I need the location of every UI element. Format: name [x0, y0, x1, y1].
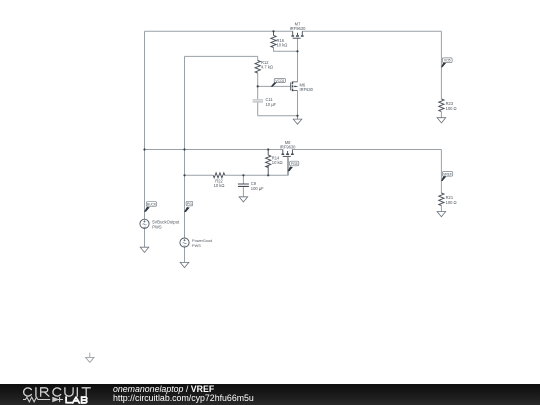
junction second vertical / lower rail [183, 148, 185, 150]
resistor R21 [439, 193, 444, 206]
LAB bold letters [66, 397, 87, 403]
junction M6 source / C11 / ground [296, 115, 298, 117]
ground under M6 [293, 116, 302, 125]
svg-text:10 kΩ: 10 kΩ [214, 183, 225, 188]
svg-text:PowerGood: PowerGood [192, 239, 212, 243]
voltage source PowerGood [180, 238, 189, 247]
capacitor C11 [253, 99, 263, 102]
transistor M8 (PMOS, gate down) [282, 150, 294, 157]
wire R16 bottom to gate node [274, 48, 298, 52]
wire second vertical [184, 56, 186, 238]
resistor R23 [439, 99, 444, 112]
svg-text:PWS: PWS [192, 244, 201, 248]
wire powergood source to ground [184, 247, 186, 263]
svg-text:IRF630: IRF630 [300, 87, 314, 92]
junction M7 gate / R16 / M6 drain [296, 50, 298, 52]
flag VREF [441, 172, 453, 181]
svg-text:100 Ω: 100 Ω [446, 200, 457, 205]
flag PG5 [288, 161, 299, 171]
svg-text:VO5: VO5 [444, 59, 451, 63]
capacitor C9 [238, 184, 249, 186]
circuitlab logo [0, 384, 110, 405]
wire M6 source to bottom [297, 91, 299, 116]
svg-text:PG: PG [187, 202, 192, 206]
wire lower rail [145, 149, 442, 151]
flag BUCK [144, 202, 157, 212]
footer bar [0, 384, 540, 405]
wire buck source to ground [144, 228, 146, 247]
wire bottom of C11 to M6 source [258, 115, 298, 117]
ground lower right [437, 212, 446, 217]
wire right vertical top [440, 31, 442, 99]
junction second vertical / R22 row (node PG) [183, 174, 185, 176]
svg-text:4.7 kΩ: 4.7 kΩ [261, 65, 273, 70]
voltage source 5VBuckOutput [140, 219, 149, 228]
svg-text:10 kΩ: 10 kΩ [277, 43, 288, 48]
resistor R14 [266, 150, 271, 176]
transistor M7 (PMOS, gate down) [291, 31, 303, 38]
svg-text:IRF9630: IRF9630 [280, 144, 296, 149]
transistor M6 (NMOS, gate left) [291, 82, 298, 92]
flag PG [184, 201, 193, 212]
wire R12/C11 column [257, 56, 259, 115]
flag VCC6 [271, 79, 286, 87]
ground under C9 [239, 197, 248, 202]
resistor R22 (horizontal) [213, 173, 225, 178]
wire left vertical (buck) [144, 31, 146, 219]
svg-text:100 µF: 100 µF [251, 186, 264, 191]
CIRCUIT outline letters [24, 388, 91, 396]
svg-text:PG5: PG5 [291, 162, 298, 166]
ground under powergood source [180, 262, 189, 267]
svg-text:10 µF: 10 µF [266, 102, 277, 107]
svg-text:10 kΩ: 10 kΩ [272, 160, 283, 165]
ground top right [437, 118, 446, 123]
wire y175 row [185, 157, 289, 175]
junction R14 top / lower rail [267, 148, 269, 150]
lone ground (unconnected) [86, 353, 94, 363]
svg-text:BUCK: BUCK [147, 202, 157, 206]
ground under buck source [140, 247, 149, 252]
wire second rail [185, 55, 258, 57]
svg-text:IRF9630: IRF9630 [290, 26, 306, 31]
wire M8 gate lead down to PG row [287, 157, 289, 175]
wire R23 to ground top right [440, 112, 442, 118]
resistor R16 [271, 31, 276, 47]
junction R16 top / 5V rail [272, 30, 274, 32]
wire top rail 5V [145, 30, 442, 32]
wire M7 gate / M6 drain column [297, 38, 299, 82]
junction R22 / C9 [242, 174, 244, 176]
flag VO5 [441, 58, 452, 67]
svg-text:VCC6: VCC6 [275, 79, 284, 83]
junction R12 / C11 / M6 gate (node VCC6) [257, 85, 259, 87]
wire M6 gate lead [258, 85, 291, 87]
wire R21 to ground lower right [440, 206, 442, 212]
svg-text:VREF: VREF [443, 172, 452, 176]
wire C9 column [242, 175, 244, 197]
junction buck vertical / lower rail [143, 148, 145, 150]
svg-text:PWS: PWS [152, 224, 162, 229]
resistor R12 [255, 61, 260, 73]
junction R14 bottom / R22 row [267, 174, 269, 176]
wire right vertical bottom [440, 150, 442, 194]
svg-text:100 Ω: 100 Ω [446, 106, 457, 111]
